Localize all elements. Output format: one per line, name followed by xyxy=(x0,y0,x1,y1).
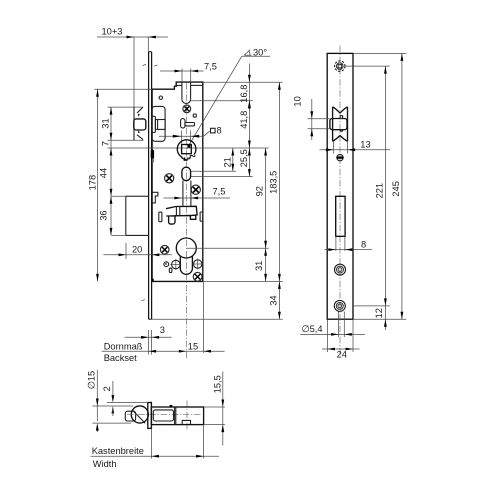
dimension 41,8 xyxy=(239,101,251,148)
latch bolt head xyxy=(134,119,146,130)
svg-text:12: 12 xyxy=(374,308,384,318)
bottom step xyxy=(182,420,190,424)
left dim chain 178 xyxy=(88,89,153,281)
svg-text:∅15: ∅15 xyxy=(86,371,96,389)
dimension 92 xyxy=(255,148,268,248)
svg-text:36: 36 xyxy=(99,210,109,220)
top screw hole xyxy=(335,61,345,71)
dimension diam 15 xyxy=(86,370,133,432)
svg-text:7,5: 7,5 xyxy=(213,187,226,197)
slotted screw xyxy=(336,154,343,160)
small slot below pin xyxy=(169,268,172,273)
dimension 245 xyxy=(391,53,403,319)
svg-text:Width: Width xyxy=(93,459,117,469)
deadbolt body inside case xyxy=(166,206,197,224)
latch stem xyxy=(125,411,135,421)
svg-text:245: 245 xyxy=(391,181,401,197)
svg-text:10+3: 10+3 xyxy=(102,27,123,37)
latch cutout (bow-tie) xyxy=(333,107,348,142)
dimension 183,5 xyxy=(268,82,280,281)
right dim chain: ext lines xyxy=(203,81,283,83)
dimension 10+3 top xyxy=(97,27,168,108)
svg-text:7: 7 xyxy=(101,141,111,146)
svg-text:25,5: 25,5 xyxy=(239,149,249,167)
svg-text:183,5: 183,5 xyxy=(268,171,278,194)
latch chamber behind faceplate xyxy=(152,106,166,141)
svg-text:24: 24 xyxy=(337,349,347,359)
dimension 7,5 lower xyxy=(164,187,231,200)
inner compartment xyxy=(153,410,173,421)
spring rect left xyxy=(159,212,162,222)
dimension 3 (faceplate thickness) xyxy=(125,325,172,355)
deadbolt thrown outline xyxy=(112,196,149,235)
dimension box8 leader xyxy=(159,126,222,144)
latch head circle xyxy=(131,406,148,423)
latch envelope box (left of faceplate) xyxy=(108,107,144,140)
right panel ext lines xyxy=(353,52,406,54)
svg-text:31: 31 xyxy=(101,118,111,128)
svg-text:34: 34 xyxy=(268,295,278,305)
svg-text:3: 3 xyxy=(160,325,165,335)
follower (square spindle hub) xyxy=(177,140,196,161)
deadbolt slot in plate xyxy=(336,196,345,236)
small square hole right of screw xyxy=(193,114,196,117)
lock case outline xyxy=(152,82,203,281)
svg-text:2: 2 xyxy=(102,386,112,391)
latch bolt in cutout xyxy=(330,116,347,132)
dimension 20 (deadbolt throw) xyxy=(103,243,171,259)
screw below slot xyxy=(183,105,191,113)
divider xyxy=(174,407,176,425)
svg-text:8: 8 xyxy=(361,239,366,249)
dimension diam 5,4 xyxy=(300,312,365,338)
top notch xyxy=(170,405,173,407)
svg-text:41,8: 41,8 xyxy=(239,111,249,129)
lower screw hole B xyxy=(334,300,345,311)
case body xyxy=(151,407,203,425)
dimension 15,5 xyxy=(212,372,224,446)
left chain 31 / 7 / 44 / 36 xyxy=(99,107,113,235)
faceplate bar in section xyxy=(148,403,152,429)
svg-text:44: 44 xyxy=(99,168,109,178)
lug at faceplate bottom corner xyxy=(152,279,154,282)
lower screw hole A xyxy=(335,264,346,275)
dimension 25,5 xyxy=(239,148,251,177)
svg-text:Backset: Backset xyxy=(104,353,137,363)
oval slot below follower xyxy=(182,167,191,180)
section centerlines xyxy=(127,414,201,416)
plate centerline xyxy=(339,46,341,357)
faceplate (side view, vertical strip) xyxy=(149,52,152,320)
svg-text:15,5: 15,5 xyxy=(212,375,222,393)
step bracket at case left, deadbolt top xyxy=(152,192,158,203)
svg-text:20: 20 xyxy=(132,245,142,255)
vertical centerline of lock xyxy=(186,83,188,359)
small pin xyxy=(164,262,169,267)
dimension 7,5 upper xyxy=(160,62,217,83)
svg-text:92: 92 xyxy=(255,186,265,196)
svg-text:178: 178 xyxy=(88,175,98,191)
svg-text:15: 15 xyxy=(188,341,198,351)
slot walls below oval xyxy=(182,181,184,206)
dimension 24 xyxy=(322,319,360,359)
30 degree reference diagonal xyxy=(187,47,270,149)
svg-text:30°: 30° xyxy=(253,47,267,57)
svg-text:8: 8 xyxy=(217,126,222,136)
dimension 8 (slot width) xyxy=(325,236,372,251)
dimension 221 xyxy=(374,66,386,306)
black hole in faceplate at follower height xyxy=(151,150,154,159)
small hole top-left of case xyxy=(159,96,162,99)
svg-text:Dornmaß: Dornmaß xyxy=(104,342,143,352)
screws middle area xyxy=(165,174,201,195)
screw bottom right xyxy=(193,272,202,281)
svg-text:∅5,4: ∅5,4 xyxy=(302,324,323,334)
top slot in case xyxy=(182,82,191,103)
dimension 10 (latch height) xyxy=(293,96,330,140)
plate outline xyxy=(327,53,353,319)
dimension backset / 15 xyxy=(102,282,225,363)
change lever xyxy=(181,119,195,128)
dimension 2 xyxy=(102,381,148,416)
faceplate break marks xyxy=(143,64,146,65)
dimension 31 right xyxy=(254,248,267,281)
svg-text:16,8: 16,8 xyxy=(239,85,249,103)
follower axis line (horizontal) xyxy=(108,147,269,149)
ext lines for 15,5 xyxy=(204,406,225,408)
dimension 12 xyxy=(374,306,387,330)
dimension 13 (cutout width) xyxy=(320,139,391,153)
svg-text:13: 13 xyxy=(360,139,370,149)
svg-text:Kastenbreite: Kastenbreite xyxy=(92,446,144,456)
crosshair circle left xyxy=(170,259,181,270)
svg-text:221: 221 xyxy=(374,183,384,199)
svg-text:21: 21 xyxy=(222,157,232,167)
guide rect right xyxy=(200,212,203,221)
dimension 21 xyxy=(222,148,234,171)
crosshair circle right xyxy=(192,259,203,270)
svg-text:7,5: 7,5 xyxy=(204,62,217,72)
cylinder screw left xyxy=(160,245,169,254)
dimension 34 xyxy=(268,281,280,319)
svg-text:10: 10 xyxy=(293,96,303,106)
dimension Kastenbreite / Width xyxy=(91,425,220,469)
latch bevel diagonal xyxy=(133,410,146,423)
euro profile cylinder hole xyxy=(176,238,196,274)
svg-text:31: 31 xyxy=(254,261,264,271)
dimension 16,8 xyxy=(239,64,251,111)
